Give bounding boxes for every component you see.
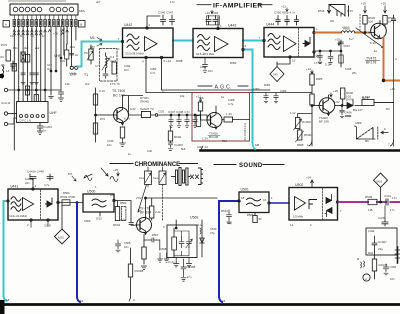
svg-text:C740: C740	[107, 139, 114, 143]
blue wire to bus	[77, 203, 80, 303]
connector pin circle 1	[13, 7, 18, 12]
svg-text:61: 61	[80, 299, 84, 303]
TV475 emitter lead	[375, 34, 381, 38]
capacitor C441b	[30, 174, 36, 180]
U502 diode b	[325, 208, 332, 217]
TV475 base lead	[369, 32, 375, 34]
svg-text:IF-AMPLIFIER: IF-AMPLIFIER	[213, 3, 263, 10]
svg-text:R4: R4	[386, 107, 390, 111]
cyan wire U442 to U443	[173, 40, 193, 42]
svg-text:U442: U442	[124, 23, 132, 27]
svg-text:M3: M3	[274, 73, 278, 77]
svg-text:4n7: 4n7	[96, 0, 101, 4]
resistor R605 module	[224, 117, 233, 122]
transformer T2 box	[142, 112, 151, 118]
svg-text:U443: U443	[228, 24, 236, 28]
dashed pair R504b	[122, 207, 126, 221]
bus entry arrow 7	[391, 140, 394, 146]
resistor R504 hang	[117, 201, 119, 207]
U569 ground b	[186, 258, 191, 267]
svg-text:6VART T2: 6VART T2	[140, 107, 154, 111]
svg-text:1.4V: 1.4V	[226, 112, 232, 116]
thermistor R5001	[298, 130, 302, 140]
coil L9 inside tuner box	[106, 53, 108, 71]
U500 filter waves	[92, 199, 106, 207]
svg-text:4.7µ: 4.7µ	[44, 183, 50, 187]
U442 left pin	[121, 40, 123, 42]
svg-text:C503: C503	[84, 219, 91, 223]
supply +12 above C348	[211, 10, 213, 14]
U441 bottom pin358	[47, 219, 49, 221]
wire circle2 to strip	[8, 118, 17, 124]
svg-text:17n: 17n	[390, 208, 395, 212]
svg-text:(R640): (R640)	[140, 100, 149, 104]
U501 filter waves	[247, 198, 261, 206]
svg-text:22µ: 22µ	[378, 247, 383, 251]
svg-text:R500: R500	[63, 191, 70, 195]
svg-text:R502 C500: R502 C500	[60, 195, 76, 199]
bundle cap c	[34, 73, 38, 84]
U500 right pin	[113, 199, 115, 201]
U443 right pin6	[242, 48, 244, 50]
svg-text:C352: C352	[150, 67, 157, 71]
capacitor C1007	[372, 236, 377, 252]
connector pin circle 3	[25, 7, 30, 12]
svg-text:R506: R506	[247, 213, 254, 217]
wire agc chain	[310, 85, 312, 146]
zener column right of U569	[201, 220, 203, 257]
collector row wire	[123, 96, 143, 116]
grounds row chroma	[158, 253, 163, 262]
resistor on bundle low b	[34, 95, 38, 102]
right edge component stubs	[397, 247, 399, 263]
U444 amp triangle	[284, 36, 297, 52]
U569 ground a	[174, 258, 179, 267]
svg-text:R361: R361	[264, 83, 271, 87]
svg-text:A.G.C.: A.G.C.	[215, 85, 232, 91]
label A.G.C.	[198, 85, 212, 87]
cyan wire U443 to U444	[243, 40, 264, 42]
svg-text:C1400: C1400	[174, 143, 183, 147]
resistor R604 in cap row	[196, 116, 201, 127]
connector pin circle 2	[19, 7, 24, 12]
left open circle y90	[4, 88, 7, 91]
svg-text:100: 100	[368, 20, 373, 24]
U441 demod diode	[46, 198, 53, 207]
svg-text:FL6+U1.1MHz: FL6+U1.1MHz	[10, 214, 28, 218]
capacitor C349	[213, 16, 218, 25]
svg-text:R605: R605	[316, 77, 323, 81]
U441 left stub	[4, 200, 7, 202]
U444 filter symbol	[268, 34, 280, 50]
svg-text:9.1V: 9.1V	[99, 89, 105, 93]
TS400 base bar	[322, 101, 324, 110]
svg-text:M7: M7	[68, 172, 72, 176]
series capacitor C504	[129, 223, 133, 225]
capacitor C406 below wire	[340, 106, 344, 118]
U502 top pin supply	[311, 180, 314, 188]
svg-text:M6: M6	[365, 139, 369, 143]
U441 dashed divider	[40, 190, 42, 219]
TV475 base bar	[374, 27, 376, 36]
ground TS7400 emitter	[120, 138, 125, 146]
wire resistor to box edge	[222, 119, 250, 121]
U442 bottom pin6	[160, 56, 162, 58]
svg-text:6.3V: 6.3V	[124, 117, 130, 121]
wire U444 pin16 down	[277, 58, 290, 64]
header SOUND	[214, 164, 236, 166]
svg-text:135: 135	[368, 208, 373, 212]
svg-text:17n: 17n	[187, 275, 192, 279]
svg-text:47p: 47p	[210, 231, 215, 235]
resistor TS76 column	[112, 62, 116, 74]
svg-text:4.7µ: 4.7µ	[228, 102, 234, 106]
capacitor C5 with ground	[59, 88, 64, 101]
capacitor C347	[170, 15, 175, 25]
wire U500 to C504	[115, 201, 131, 223]
TS7400 collector lead	[117, 96, 123, 114]
resistor R509 inline	[368, 199, 377, 204]
node column right of U444	[340, 40, 342, 67]
U444 demodulator diode	[303, 38, 310, 47]
U502 amp triangle	[295, 197, 306, 211]
svg-text:6R78: 6R78	[362, 96, 369, 100]
arrowheads under capacitor row	[13, 30, 68, 36]
svg-text:R352: R352	[230, 61, 237, 65]
svg-text:Jave: Jave	[139, 177, 145, 180]
U443 amp triangle	[215, 37, 229, 52]
svg-text:1e: 1e	[374, 49, 377, 53]
U444 left pin7	[263, 39, 265, 41]
cap hang left chroma	[116, 240, 121, 252]
transistor TV475 circle	[371, 23, 387, 39]
svg-text:A: A	[133, 298, 135, 302]
supply arrow above C350	[286, 8, 288, 12]
capacitor C643	[328, 51, 333, 64]
diamond M16	[374, 173, 388, 187]
svg-text:10n: 10n	[107, 143, 112, 147]
svg-text:C: C	[63, 27, 65, 31]
header IF-AMPLIFIER	[197, 4, 272, 6]
connector pin circle 8	[63, 7, 68, 12]
svg-text:5+7: 5+7	[349, 37, 354, 41]
svg-text:10µ: 10µ	[227, 221, 232, 225]
caps above U444	[276, 16, 280, 25]
transistor TS7400 circle	[114, 108, 129, 123]
svg-text:R504: R504	[113, 223, 121, 227]
svg-text:5k: 5k	[259, 217, 263, 221]
scan streak top edge	[8, 0, 66, 2]
svg-text:VHF: VHF	[54, 54, 61, 58]
U443 filter symbol	[198, 35, 210, 51]
connector strip J1	[10, 4, 78, 15]
U502 diode a	[326, 195, 332, 204]
adjust diagonal arrow	[356, 28, 384, 48]
svg-text:1.4V: 1.4V	[347, 9, 353, 13]
U501 bottom resistor	[254, 213, 256, 216]
X-box capacitor on bundle	[21, 52, 25, 62]
connector pin circle 7	[56, 7, 61, 12]
AGC filter cap 2	[274, 93, 278, 103]
transistor TS400 base lead	[312, 105, 323, 107]
IC U500 block	[83, 194, 114, 212]
svg-text:17.5n: 17.5n	[314, 61, 322, 65]
svg-text:1n: 1n	[128, 152, 131, 156]
svg-text:R44: R44	[368, 251, 373, 255]
svg-text:+24: +24	[306, 176, 311, 180]
small coupling marks	[191, 175, 199, 179]
svg-text:C24: C24	[60, 59, 65, 63]
U502 limiter glyph	[309, 200, 317, 209]
capacitor C348	[206, 16, 211, 25]
capacitor C517	[391, 15, 395, 24]
cap C500 left low	[227, 210, 232, 224]
IC U442 block	[123, 28, 174, 58]
IF transformer icon	[172, 168, 191, 186]
resistor R7401	[93, 94, 97, 105]
svg-text:2.5V: 2.5V	[136, 196, 142, 200]
junction dot base	[364, 32, 366, 34]
AGC return wire pin4	[146, 59, 310, 93]
svg-text:R1088: R1088	[135, 269, 144, 273]
svg-text:1.2V: 1.2V	[202, 137, 208, 141]
svg-text:C510: C510	[210, 227, 217, 231]
svg-text:18: 18	[241, 196, 245, 200]
svg-text:1n: 1n	[20, 34, 23, 38]
svg-text:R509: R509	[365, 195, 373, 199]
svg-text:Nave: Nave	[153, 177, 159, 180]
capacitor C445 above box	[382, 220, 388, 226]
svg-text:+25: +25	[113, 168, 118, 172]
svg-text:C508: C508	[160, 247, 167, 251]
svg-text:C17: C17	[47, 63, 52, 67]
svg-text:10n: 10n	[208, 69, 213, 73]
svg-text:4.7n: 4.7n	[150, 71, 156, 75]
dashed drop from trimmer b	[162, 185, 164, 221]
svg-text:22n: 22n	[25, 181, 30, 185]
junction dots on bundle	[50, 70, 52, 72]
diamond M10 stem	[61, 205, 63, 229]
bus entry arrow 1	[309, 140, 312, 146]
cap row C4	[193, 115, 197, 127]
cyan wire tuner to U442	[78, 42, 123, 67]
TS426 collector lead	[211, 106, 217, 118]
svg-text:R64: R64	[222, 139, 227, 143]
svg-text:UHF: UHF	[50, 111, 57, 115]
svg-text:C1007: C1007	[378, 240, 387, 244]
svg-text:MPk: MPk	[79, 9, 86, 13]
transistor TS400 circle	[319, 98, 335, 114]
svg-text:2k2: 2k2	[35, 46, 40, 50]
U444 pin2 load wire	[314, 50, 341, 52]
connector pin circle 6	[50, 7, 55, 12]
U444 right pin2	[313, 51, 315, 53]
svg-text:0.4V: 0.4V	[130, 107, 136, 111]
ground chroma mid	[129, 298, 131, 301]
ground under C1433	[37, 131, 42, 134]
svg-text:1n: 1n	[42, 34, 45, 38]
trimmer box pair a	[145, 171, 152, 185]
capacitor C9 inside tuner box	[103, 71, 108, 78]
resistor R603 in module	[198, 102, 202, 111]
cap C2588	[181, 259, 186, 281]
IC U443 block	[193, 29, 243, 58]
svg-text:U569: U569	[190, 216, 198, 220]
svg-text:13k: 13k	[65, 82, 70, 86]
svg-text:C341: C341	[124, 64, 131, 68]
coil L4	[3, 66, 4, 78]
svg-text:5.5 MHz: 5.5 MHz	[293, 215, 304, 219]
TS7400 emitter lead	[117, 118, 124, 126]
svg-text:6.3V: 6.3V	[370, 41, 376, 45]
cyan wire U443 pin6 down to M8	[244, 50, 253, 143]
svg-text:+12: +12	[281, 5, 286, 9]
collector node wire to sound takeoff	[146, 197, 218, 199]
U441 pin4 wire up	[32, 179, 34, 188]
capacitor C448	[47, 174, 53, 180]
svg-text:1n: 1n	[31, 34, 34, 38]
U442 bottom pin4	[145, 56, 147, 58]
svg-text:M16: M16	[377, 180, 383, 184]
U501 left pin	[238, 200, 240, 202]
svg-text:C445: C445	[378, 216, 386, 220]
strip inner circles	[20, 115, 23, 118]
svg-text:10k: 10k	[1, 63, 6, 67]
resistor on bundle low a	[25, 86, 29, 95]
header CHROMINANCE	[110, 163, 133, 165]
emitter bypass cap	[144, 238, 160, 250]
svg-text:U500: U500	[87, 190, 95, 194]
resistor R7402	[93, 123, 97, 134]
svg-text:TS 7400: TS 7400	[112, 89, 125, 93]
U444 bottom pin16	[289, 56, 291, 58]
svg-text:A: A	[5, 23, 7, 27]
IC U441 block	[8, 189, 58, 220]
U443 pin wire up	[217, 17, 219, 27]
svg-text:C362: C362	[280, 89, 287, 93]
svg-text:C444: C444	[368, 229, 375, 233]
svg-text:M2: M2	[90, 46, 95, 50]
capacitor C344 column	[339, 42, 344, 44]
svg-text:C346 C347: C346 C347	[158, 11, 174, 15]
wire C445 up toward audio line	[384, 206, 386, 220]
wire horizontal to tuner box	[8, 89, 61, 91]
svg-text:25n: 25n	[352, 71, 357, 75]
AGC filter cap 1	[264, 93, 268, 103]
U500 bottom stub	[99, 212, 101, 216]
svg-text:T1: T1	[84, 73, 88, 77]
thick bus line middle	[201, 149, 400, 152]
svg-text:V517: V517	[342, 26, 349, 30]
AGC module highlight box	[192, 93, 250, 142]
terminal B box	[79, 21, 86, 28]
IC U502 block	[289, 188, 338, 221]
thermistor R1000	[296, 118, 300, 129]
resistor on bundle w1	[12, 64, 16, 72]
connector pin circle 5	[37, 7, 42, 12]
svg-text:P6: P6	[84, 51, 88, 55]
arrow through coil	[102, 58, 110, 70]
potentiometer P6	[90, 45, 92, 64]
base wire TS7400	[96, 114, 109, 116]
svg-text:17n: 17n	[392, 196, 397, 200]
svg-text:U1/L11: U1/L11	[1, 101, 11, 105]
svg-text:5k6: 5k6	[181, 147, 186, 151]
svg-text:R74: R74	[100, 117, 105, 121]
svg-text:BF178: BF178	[366, 61, 376, 65]
U442 filter symbol	[127, 34, 139, 50]
measure arrow chroma left	[101, 168, 108, 176]
diamond M10	[55, 229, 70, 244]
svg-text:16: 16	[292, 59, 296, 63]
TS400 collector lead	[323, 95, 329, 104]
svg-text:C641: C641	[314, 55, 322, 59]
blue wire sound input	[219, 201, 239, 302]
ground TS478 emitter	[141, 266, 146, 269]
svg-text:R602: R602	[174, 135, 182, 139]
wire bundle drops	[13, 27, 15, 151]
cyan bus hook M8	[253, 142, 256, 149]
svg-text:R348: R348	[176, 59, 183, 63]
svg-text:C441: C441	[384, 194, 392, 198]
svg-text:CHROMINANCE: CHROMINANCE	[135, 162, 181, 168]
U502 dashed divider	[322, 189, 324, 220]
junction dot audio	[380, 201, 382, 203]
svg-text:17n: 17n	[170, 0, 175, 4]
TS478 collector lead	[140, 198, 146, 223]
svg-text:C360: C360	[253, 87, 260, 91]
inner wires U569	[174, 231, 189, 256]
svg-text:4.7: 4.7	[95, 64, 99, 68]
cap inside	[179, 237, 184, 248]
svg-text:16: 16	[222, 299, 226, 303]
capacitor C448b with ground	[384, 264, 389, 275]
resistor R3 left column	[6, 50, 11, 61]
dashed link waveform to wire	[359, 14, 361, 30]
svg-text:4n7: 4n7	[47, 67, 52, 71]
svg-text:R21: R21	[70, 45, 75, 49]
diamond M16 stem	[380, 188, 382, 203]
TS478 base bar	[139, 221, 141, 230]
wire thermistors	[298, 114, 312, 131]
bottom right sub box	[366, 228, 397, 255]
svg-text:C: C	[31, 27, 33, 31]
resistor R644 column	[339, 55, 343, 63]
svg-text:C350 820p 4.7n: C350 820p 4.7n	[274, 11, 296, 15]
U442 pin2 top	[146, 27, 148, 29]
svg-text:10n: 10n	[124, 68, 129, 72]
collector resistor R478	[150, 206, 154, 218]
orange emitter wire down and right	[384, 38, 400, 81]
svg-text:UHF: UHF	[70, 72, 76, 76]
svg-text:CMR: CMR	[390, 265, 398, 269]
crystal unit U569 box	[167, 225, 197, 258]
svg-text:3,5,8: 3,5,8	[44, 224, 51, 228]
svg-text:R510: R510	[221, 209, 229, 213]
svg-text:16: 16	[263, 198, 267, 202]
trimmer inside	[187, 237, 192, 248]
junction dot orange corner	[382, 79, 385, 82]
label +12 C348	[207, 16, 220, 25]
resistor R603	[310, 94, 314, 105]
svg-text:C441b C448: C441b C448	[27, 170, 44, 174]
transistor TS426 circle	[207, 113, 222, 128]
U502 right pin	[336, 201, 338, 203]
U569 top feed wire	[175, 220, 177, 228]
orange video wire U444 to TV475	[316, 32, 370, 34]
capacitor C346	[161, 15, 166, 25]
U441 bottom pin2	[30, 219, 32, 221]
